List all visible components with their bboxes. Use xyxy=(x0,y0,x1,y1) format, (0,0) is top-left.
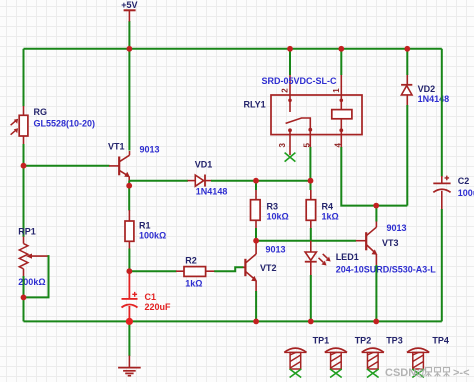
svg-text:GL5528(10-20): GL5528(10-20) xyxy=(34,119,96,129)
svg-text:VT1: VT1 xyxy=(108,142,125,152)
node junction R3 tap xyxy=(253,178,259,184)
test point TP4 xyxy=(407,348,429,377)
svg-text:>-<: >-< xyxy=(453,367,470,379)
wire LED1 cathode to bottom rail xyxy=(310,275,312,321)
svg-text:1kΩ: 1kΩ xyxy=(322,212,339,222)
wire R2 to VT2 base with jog xyxy=(214,267,243,271)
resistor R4 xyxy=(306,183,315,241)
photoresistor RG xyxy=(11,106,28,145)
watermark CSDN xyxy=(385,367,470,379)
svg-text:SRD-05VDC-SL-C: SRD-05VDC-SL-C xyxy=(262,76,338,86)
svg-text:TP4: TP4 xyxy=(432,336,449,346)
svg-text:100kΩ: 100kΩ xyxy=(139,231,166,241)
node junction relay pin2 on rail xyxy=(287,46,293,52)
svg-text:100u: 100u xyxy=(458,188,474,198)
wire emitter node to VD1 xyxy=(129,180,188,182)
svg-text:9013: 9013 xyxy=(140,145,160,155)
svg-text:RP1: RP1 xyxy=(18,227,36,237)
svg-text:9013: 9013 xyxy=(266,245,286,255)
svg-text:200kΩ: 200kΩ xyxy=(18,277,45,287)
capacitor C2 xyxy=(433,176,450,210)
svg-text:CSDN: CSDN xyxy=(385,367,416,379)
wire VT3 collector to pin4 net xyxy=(375,206,377,222)
node junction VT2 emitter on rail xyxy=(253,319,259,325)
wire RP1 wiper loop to bottom terminal xyxy=(24,256,49,297)
svg-text:1: 1 xyxy=(332,88,341,93)
svg-text:R3: R3 xyxy=(267,202,279,212)
wire VD2 anode down to pin4 net corner xyxy=(406,105,408,206)
node junction relay pin1 on rail xyxy=(338,46,344,52)
diode VD1 xyxy=(188,175,212,187)
svg-text:C1: C1 xyxy=(145,292,157,302)
node junction RG / VT1 base xyxy=(21,163,27,169)
wire left drop from top rail to RG xyxy=(23,49,25,106)
svg-text:1N4148: 1N4148 xyxy=(418,94,450,104)
svg-text:1kΩ: 1kΩ xyxy=(185,279,202,289)
node junction R1/R2/C1 xyxy=(126,268,132,274)
transistor VT2 xyxy=(243,241,257,292)
svg-text:204-10SURD/S530-A3-L: 204-10SURD/S530-A3-L xyxy=(336,265,437,275)
svg-text:2: 2 xyxy=(281,88,290,93)
resistor R2 xyxy=(176,267,215,277)
svg-text:+5V: +5V xyxy=(121,0,137,10)
node junction C1 / ground on bottom rail xyxy=(126,318,133,325)
svg-text:TP3: TP3 xyxy=(386,336,403,346)
wire C2 bottom to bottom rail xyxy=(441,209,443,321)
transistor VT1 xyxy=(109,151,130,181)
svg-text:VT2: VT2 xyxy=(260,263,277,273)
wire node to R2 xyxy=(129,270,176,272)
svg-text:TP2: TP2 xyxy=(355,336,372,346)
wire VT3 emitter to bottom rail xyxy=(375,265,377,321)
svg-text:R1: R1 xyxy=(139,221,151,231)
ground xyxy=(118,321,141,375)
wire left column down to bottom rail xyxy=(23,297,25,321)
wire RP1 bottom to node xyxy=(23,276,25,297)
relay RLY1 xyxy=(271,75,362,156)
svg-text:RG: RG xyxy=(34,107,48,117)
svg-text:VT3: VT3 xyxy=(382,238,399,248)
test point TP2 xyxy=(325,348,347,377)
node junction VT3 collector tap xyxy=(373,203,379,209)
node junction RP1 bottom / wiper xyxy=(21,295,27,301)
resistor R3 xyxy=(251,183,261,241)
svg-text:RLY1: RLY1 xyxy=(244,100,266,110)
test point TP3 xyxy=(362,348,384,377)
diode VD2 xyxy=(401,74,412,106)
svg-text:3: 3 xyxy=(278,143,287,148)
svg-text:1N4148: 1N4148 xyxy=(196,187,228,197)
test point TP1 xyxy=(284,348,306,377)
svg-text:R4: R4 xyxy=(322,202,334,212)
wire RG bottom to node xyxy=(23,144,25,166)
node junction LED1 on rail xyxy=(308,319,314,325)
wire right drop from rail to C2 xyxy=(441,49,443,177)
wire relay pin4 down and right to VD2 column xyxy=(341,147,407,206)
node junction VT3 emitter on rail xyxy=(373,319,379,325)
led LED1 xyxy=(305,241,331,276)
node junction R3 bottom / VT2 collector xyxy=(253,238,259,244)
svg-text:9013: 9013 xyxy=(387,223,407,233)
wire relay pin1 to top rail xyxy=(340,49,342,75)
wire VT1 collector up to rail xyxy=(128,49,130,151)
wire VT2 emitter to bottom rail xyxy=(255,291,257,321)
potentiometer RP1 xyxy=(19,166,48,277)
transistor VT3 xyxy=(356,221,378,266)
svg-text:5: 5 xyxy=(303,143,312,148)
node junction +5V / VT1 collector on rail xyxy=(126,46,132,52)
wire relay pin2 to top rail xyxy=(289,49,291,75)
node junction below VT1 emitter xyxy=(126,183,132,189)
svg-text:C2: C2 xyxy=(458,176,470,186)
no-connect X on pin 3 xyxy=(285,153,296,162)
node junction R4 / relay pin5 tap xyxy=(308,178,314,184)
svg-text:220uF: 220uF xyxy=(145,302,172,312)
svg-text:LED1: LED1 xyxy=(336,252,359,262)
wire bottom rail xyxy=(24,320,442,322)
resistor R1 xyxy=(125,210,134,249)
svg-text:R2: R2 xyxy=(185,256,197,266)
wire R3 node to VT3 base xyxy=(256,240,356,242)
capacitor C1 (highlighted red) xyxy=(122,271,138,321)
svg-text:VD2: VD2 xyxy=(418,84,436,94)
svg-text:10kΩ: 10kΩ xyxy=(267,212,289,222)
wire R1 bottom to node xyxy=(128,249,130,272)
node junction VD2 on rail xyxy=(404,46,410,52)
wire VD2 cathode to top rail xyxy=(406,49,408,75)
wire relay pin5 down to R4 tap node xyxy=(309,147,311,181)
wire emitter node down to R1 xyxy=(128,181,130,211)
wire top rail xyxy=(24,48,442,50)
svg-text:VD1: VD1 xyxy=(195,160,213,170)
power +5V xyxy=(121,0,137,49)
svg-text:4: 4 xyxy=(333,143,342,148)
wire VT1 base from node xyxy=(24,165,110,167)
svg-text:TP1: TP1 xyxy=(313,336,330,346)
wire VD1 to R3/R4 taps xyxy=(211,180,311,182)
